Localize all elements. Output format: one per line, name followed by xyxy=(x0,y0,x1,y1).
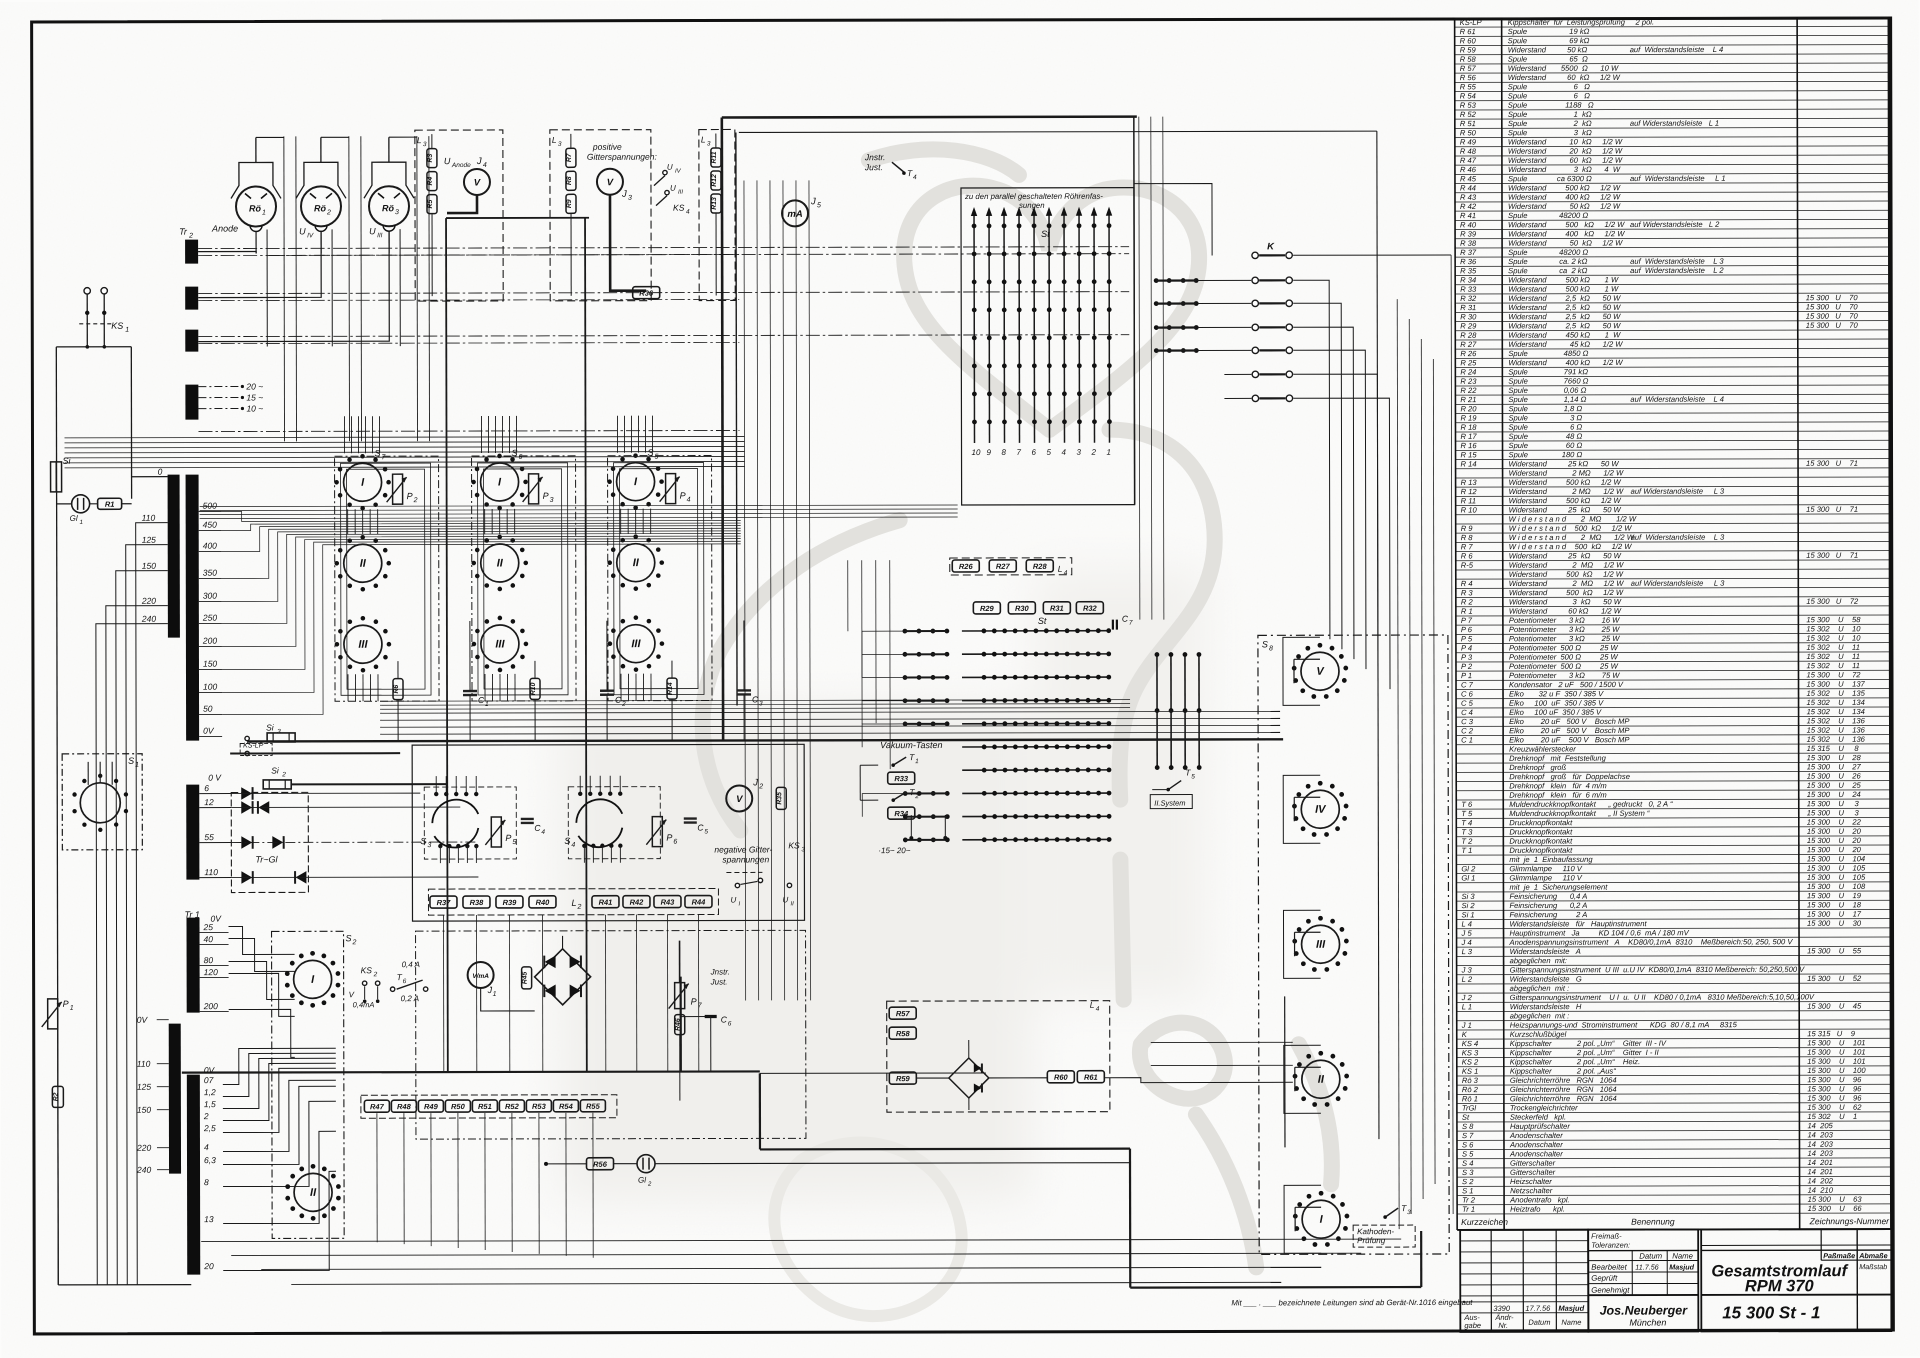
fuse Si2 xyxy=(263,780,291,789)
svg-text:Potentiometer 3 kΩ: Potentiometer 3 kΩ 25 W xyxy=(1509,625,1620,634)
resistor R34 xyxy=(888,807,915,819)
svg-text:Si 2: Si 2 xyxy=(1461,901,1475,910)
wire bottom xyxy=(58,1284,191,1286)
svg-text:R 57: R 57 xyxy=(1460,64,1477,73)
svg-text:1: 1 xyxy=(80,520,83,526)
svg-text:Spule 69 kΩ: Spule 69 kΩ xyxy=(1508,36,1590,45)
resistor R27 xyxy=(989,560,1016,572)
svg-text:15 300 U 72: 15 300 U 72 xyxy=(1806,670,1861,679)
wire bundle band B xyxy=(380,700,1130,702)
resistor R40 xyxy=(529,896,556,908)
svg-text:1: 1 xyxy=(915,758,919,765)
svg-text:15 300 U 101: 15 300 U 101 xyxy=(1807,1048,1865,1057)
svg-text:R 44: R 44 xyxy=(1460,184,1476,193)
svg-text:T 2: T 2 xyxy=(1461,837,1473,846)
svg-text:15 300 U 63: 15 300 U 63 xyxy=(1808,1195,1863,1204)
svg-text:Kreuzwählerstecker: Kreuzwählerstecker xyxy=(1509,745,1576,754)
svg-text:R39: R39 xyxy=(503,898,518,907)
svg-text:Spule ca. 2 kΩ: Spule ca. 2 kΩ xyxy=(1508,257,1587,266)
svg-text:R51: R51 xyxy=(478,1102,492,1111)
svg-text:R 37: R 37 xyxy=(1460,248,1477,257)
svg-text:KS-LP: KS-LP xyxy=(1460,18,1483,27)
svg-text:Spule 1,8 Ω: Spule 1,8 Ω xyxy=(1508,404,1582,413)
svg-text:abgeglichen mit :: abgeglichen mit : xyxy=(1510,1011,1570,1020)
svg-text:Drehknopf mit Feststellung: Drehknopf mit Feststellung xyxy=(1509,754,1606,763)
svg-text:R 24: R 24 xyxy=(1460,368,1476,377)
svg-text:R 55: R 55 xyxy=(1460,82,1477,91)
svg-text:200: 200 xyxy=(202,636,217,646)
svg-text:Spule 6: Spule 6 Ω xyxy=(1508,91,1590,100)
selector S4 xyxy=(576,799,622,823)
svg-text:U: U xyxy=(730,895,736,904)
svg-text:Gitterspannungen:: Gitterspannungen: xyxy=(587,152,658,162)
svg-text:5: 5 xyxy=(1191,774,1195,781)
wire anode staircase xyxy=(222,510,741,521)
svg-text:5: 5 xyxy=(817,202,821,209)
svg-text:Widerstand 3 kΩ: Widerstand 3 kΩ 4 W xyxy=(1508,165,1621,174)
svg-text:Tr 1: Tr 1 xyxy=(1462,1205,1475,1214)
svg-text:R 23: R 23 xyxy=(1460,377,1477,386)
svg-text:Bearbeitet: Bearbeitet xyxy=(1591,1263,1627,1272)
selector switch V xyxy=(1301,652,1339,690)
svg-text:Datum: Datum xyxy=(1639,1252,1662,1261)
svg-text:R 59: R 59 xyxy=(1460,46,1477,55)
svg-text:U: U xyxy=(369,226,376,236)
svg-text:R 19: R 19 xyxy=(1460,414,1477,423)
svg-text:Widerstand 500 kΩ: Widerstand 500 kΩ 1/2 W xyxy=(1508,220,1625,229)
jumper contact row xyxy=(1154,278,1159,283)
svg-text:2: 2 xyxy=(576,904,581,911)
resistor R11 xyxy=(711,148,721,167)
glow lamp Gl1 xyxy=(72,495,90,513)
svg-text:V: V xyxy=(607,177,614,188)
svg-text:3: 3 xyxy=(277,728,281,735)
resistor R57 xyxy=(889,1007,916,1019)
svg-text:P 3: P 3 xyxy=(1461,653,1473,662)
svg-text:R-5: R-5 xyxy=(1461,561,1474,570)
svg-text:R58: R58 xyxy=(896,1029,911,1038)
svg-text:150: 150 xyxy=(142,561,156,571)
svg-text:III: III xyxy=(1316,939,1326,951)
svg-text:Jos.Neuberger: Jos.Neuberger xyxy=(1600,1303,1689,1317)
jumper contact row xyxy=(1224,373,1251,375)
svg-text:15 300 U 96: 15 300 U 96 xyxy=(1807,1084,1862,1093)
svg-text:S 5: S 5 xyxy=(1462,1150,1474,1159)
svg-text:110: 110 xyxy=(142,513,156,523)
tube Rö1 xyxy=(236,186,276,226)
svg-text:Si: Si xyxy=(266,722,275,732)
svg-text:Elko 100 uF 350 / 385 V: Elko 100 uF 350 / 385 V xyxy=(1509,708,1602,717)
svg-text:15 300 U 101: 15 300 U 101 xyxy=(1807,1038,1865,1047)
svg-text:Spule 65 Ω: Spule 65 Ω xyxy=(1508,54,1588,63)
svg-text:15 300 U 70: 15 300 U 70 xyxy=(1806,321,1859,330)
svg-text:15 ~: 15 ~ xyxy=(246,392,263,402)
svg-text:W i d e r s t a n d 500 kΩ: W i d e r s t a n d 500 kΩ 1/2 W xyxy=(1509,524,1633,533)
svg-text:15 300 U 19: 15 300 U 19 xyxy=(1807,891,1862,900)
svg-text:C: C xyxy=(697,823,704,833)
wire feeders to contact clusters xyxy=(847,560,849,631)
svg-text:6: 6 xyxy=(403,978,407,985)
svg-text:III: III xyxy=(377,232,383,239)
resistor row R47-R55 xyxy=(361,1095,617,1119)
svg-text:J 4: J 4 xyxy=(1461,938,1472,947)
svg-text:R53: R53 xyxy=(532,1102,547,1111)
fuse Si3 xyxy=(267,733,295,742)
svg-text:R 39: R 39 xyxy=(1460,230,1477,239)
svg-text:Netzschalter: Netzschalter xyxy=(1510,1186,1553,1195)
svg-text:Widerstand 500 kΩ: Widerstand 500 kΩ 1/2 W xyxy=(1509,570,1624,579)
svg-text:R40: R40 xyxy=(536,898,551,907)
svg-text:0,4mA: 0,4mA xyxy=(353,1000,375,1009)
resistor row R37-R44 (L2) xyxy=(428,889,718,916)
svg-text:Kippschalter 2 pol.: Kippschalter 2 pol. „Um“ Heiz. xyxy=(1510,1057,1640,1066)
svg-text:U: U xyxy=(299,226,306,236)
svg-text:400: 400 xyxy=(203,541,217,551)
svg-text:2: 2 xyxy=(281,771,286,778)
resistor R9 xyxy=(566,194,576,213)
svg-text:Glimmlampe 110 V: Glimmlampe 110 V xyxy=(1509,873,1582,882)
svg-text:Gl: Gl xyxy=(70,514,78,523)
svg-text:R 41: R 41 xyxy=(1460,211,1476,220)
svg-text:2: 2 xyxy=(914,793,919,800)
svg-text:P: P xyxy=(63,999,69,1009)
svg-text:S 4: S 4 xyxy=(1462,1159,1473,1168)
resistor R39 xyxy=(496,896,523,908)
svg-text:II: II xyxy=(790,901,794,907)
svg-text:15 300 U 18: 15 300 U 18 xyxy=(1807,900,1862,909)
svg-text:Drehknopf groß für Doppel: Drehknopf groß für Doppelachse xyxy=(1509,772,1630,781)
wire vertical feeders xyxy=(283,136,286,441)
svg-text:R50: R50 xyxy=(451,1102,466,1111)
svg-text:Maßstab: Maßstab xyxy=(1859,1262,1887,1271)
svg-text:L 4: L 4 xyxy=(1462,920,1472,929)
svg-text:Kippschalter 2 pol.: Kippschalter 2 pol. „Aus“ xyxy=(1510,1066,1616,1075)
resistor R36 xyxy=(633,287,660,299)
resistor R31 xyxy=(1043,602,1070,614)
svg-text:S 6: S 6 xyxy=(1462,1140,1474,1149)
resistor R59 xyxy=(889,1072,916,1084)
svg-text:Potentiometer 500 Ω 2: Potentiometer 500 Ω 25 W xyxy=(1509,662,1619,671)
svg-text:3: 3 xyxy=(707,141,711,148)
rail 0V (Si3/KS-LP) xyxy=(247,739,1283,741)
svg-text:500: 500 xyxy=(203,501,217,511)
svg-text:J 1: J 1 xyxy=(1461,1021,1472,1030)
svg-text:Widerstand 500 kΩ: Widerstand 500 kΩ 1/2 W xyxy=(1509,588,1624,597)
svg-text:3390: 3390 xyxy=(1493,1304,1511,1313)
svg-text:Anodenschalter: Anodenschalter xyxy=(1509,1131,1563,1140)
svg-text:S: S xyxy=(346,933,352,943)
resistor R28 xyxy=(1026,560,1053,572)
selector switch I xyxy=(617,463,655,501)
svg-text:C: C xyxy=(534,823,541,833)
selector switch III xyxy=(1302,925,1340,963)
svg-text:5: 5 xyxy=(1047,448,1052,457)
wire vertical feeders far right xyxy=(1397,299,1399,1229)
svg-text:L: L xyxy=(701,135,706,145)
svg-text:2: 2 xyxy=(352,939,357,946)
svg-text:14 205: 14 205 xyxy=(1807,1121,1833,1130)
svg-text:40: 40 xyxy=(204,934,214,944)
wire drops from L2 row xyxy=(442,915,444,1072)
svg-text:R1: R1 xyxy=(105,500,115,509)
resistor R10 xyxy=(530,678,540,699)
svg-text:Widerstand 25 kΩ: Widerstand 25 kΩ 50 W xyxy=(1509,505,1622,514)
resistor R38 xyxy=(463,896,490,908)
svg-text:Anodenspannungsinstrument A: Anodenspannungsinstrument A KD80/0,1mA 8… xyxy=(1509,937,1794,947)
svg-text:Gitterschalter: Gitterschalter xyxy=(1510,1168,1556,1177)
svg-text:15 302 U 134: 15 302 U 134 xyxy=(1807,698,1865,707)
svg-text:15 300 U 105: 15 300 U 105 xyxy=(1807,873,1866,882)
svg-text:R60: R60 xyxy=(1054,1073,1069,1082)
svg-text:15 300 U 100: 15 300 U 100 xyxy=(1807,1066,1866,1075)
svg-text:Widerstand 2 MΩ: Widerstand 2 MΩ 1/2 W xyxy=(1509,487,1624,496)
svg-text:R 47: R 47 xyxy=(1460,156,1477,165)
svg-text:Spule 48 Ω: Spule 48 Ω xyxy=(1508,432,1582,441)
svg-text:15 302 U 1: 15 302 U 1 xyxy=(1807,1112,1857,1121)
resistor R8 xyxy=(566,171,576,190)
resistor R46 xyxy=(675,1015,685,1035)
svg-text:15 300 U 3: 15 300 U 3 xyxy=(1807,799,1860,808)
jumper contact row xyxy=(1154,301,1159,306)
svg-text:14 202: 14 202 xyxy=(1808,1176,1834,1185)
resistor R7 xyxy=(566,148,576,167)
svg-text:R 9: R 9 xyxy=(1461,524,1474,533)
resistor R56 xyxy=(587,1158,614,1170)
svg-text:P 6: P 6 xyxy=(1461,625,1473,634)
transformer Tr2 primary xyxy=(168,475,180,638)
potentiometer P6 xyxy=(652,817,662,847)
svg-text:R28: R28 xyxy=(1033,562,1048,571)
svg-text:R37: R37 xyxy=(437,898,452,907)
jumper contact row xyxy=(1154,325,1159,330)
svg-text:4: 4 xyxy=(687,497,691,504)
svg-text:S 2: S 2 xyxy=(1462,1177,1474,1186)
svg-text:0V: 0V xyxy=(137,1015,149,1025)
svg-text:III: III xyxy=(358,639,368,651)
svg-text:L 1: L 1 xyxy=(1462,1002,1472,1011)
svg-text:4: 4 xyxy=(1096,1006,1100,1013)
svg-text:R8: R8 xyxy=(566,176,573,185)
svg-text:5: 5 xyxy=(704,829,708,836)
svg-text:R6: R6 xyxy=(393,685,400,694)
svg-text:15 300 U 27: 15 300 U 27 xyxy=(1807,762,1862,771)
svg-text:R36: R36 xyxy=(639,289,654,298)
svg-text:8: 8 xyxy=(1002,448,1007,457)
svg-text:R10: R10 xyxy=(530,682,537,695)
svg-text:Spule 4850 Ω: Spule 4850 Ω xyxy=(1508,349,1588,358)
selector switch II xyxy=(1302,1060,1340,1098)
svg-text:R61: R61 xyxy=(1084,1073,1098,1082)
svg-text:Spule 1: Spule 1 kΩ xyxy=(1508,110,1592,119)
svg-text:2: 2 xyxy=(326,209,331,216)
svg-text:auf Widerstandsleiste L 3: auf Widerstandsleiste L 3 xyxy=(1630,257,1724,266)
meter J2 xyxy=(726,785,752,811)
resistor R6 xyxy=(393,679,403,700)
svg-text:Tr~Gl: Tr~Gl xyxy=(255,854,278,864)
svg-text:2,5: 2,5 xyxy=(203,1123,216,1133)
svg-text:J: J xyxy=(752,777,758,788)
svg-text:14 203: 14 203 xyxy=(1807,1149,1833,1158)
svg-text:2: 2 xyxy=(1091,448,1097,457)
svg-text:Widerstand 2 MΩ: Widerstand 2 MΩ 1/2 W xyxy=(1509,468,1624,477)
svg-text:15 300 U 71: 15 300 U 71 xyxy=(1806,551,1858,560)
svg-text:R 21: R 21 xyxy=(1460,395,1476,404)
svg-text:1: 1 xyxy=(485,701,489,708)
svg-text:Widerstand 5500 Ω: Widerstand 5500 Ω 10 W xyxy=(1508,64,1619,73)
rail 0V heater xyxy=(182,1071,760,1072)
svg-text:Widerstand 2 MΩ: Widerstand 2 MΩ 1/2 W xyxy=(1509,560,1624,569)
svg-text:II.System: II.System xyxy=(1154,799,1185,808)
wire bundle band C xyxy=(64,436,744,437)
selector S3 xyxy=(432,800,478,824)
svg-text:220: 220 xyxy=(136,1143,151,1153)
svg-text:Widerstand 2,5 kΩ: Widerstand 2,5 kΩ 50 W xyxy=(1508,303,1621,312)
selector S6 group xyxy=(472,456,577,701)
svg-text:15 300 U 70: 15 300 U 70 xyxy=(1806,312,1859,321)
svg-text:R56: R56 xyxy=(593,1160,608,1169)
svg-text:6,3: 6,3 xyxy=(204,1155,216,1165)
resistor R49 xyxy=(418,1100,443,1112)
resistor R1 xyxy=(98,498,122,509)
svg-text:Heizspannungs-und Strominstru: Heizspannungs-und Strominstrument KDG 80… xyxy=(1510,1020,1738,1029)
svg-text:15 300 U 22: 15 300 U 22 xyxy=(1807,818,1862,827)
svg-text:Just.: Just. xyxy=(864,162,883,172)
svg-text:2: 2 xyxy=(758,783,763,790)
svg-text:20: 20 xyxy=(203,1261,214,1271)
resistor R4 xyxy=(427,172,437,191)
svg-text:R 50: R 50 xyxy=(1460,128,1477,137)
svg-text:2: 2 xyxy=(413,497,418,504)
svg-text:15 300 U 45: 15 300 U 45 xyxy=(1807,1002,1862,1011)
svg-text:IV: IV xyxy=(307,232,314,239)
svg-text:7: 7 xyxy=(1129,620,1133,627)
capacitor C3 xyxy=(737,689,751,691)
svg-text:U: U xyxy=(782,895,788,904)
svg-text:10: 10 xyxy=(972,448,981,457)
svg-text:R 14: R 14 xyxy=(1461,460,1477,469)
svg-text:7: 7 xyxy=(1017,448,1022,457)
resistor R26 xyxy=(952,560,979,572)
svg-text:V: V xyxy=(474,178,481,189)
svg-text:15 300 U 3: 15 300 U 3 xyxy=(1807,808,1860,817)
svg-text:zu den parallel geschalteten R: zu den parallel geschalteten Röhrenfas- xyxy=(964,192,1103,201)
capacitor C2 xyxy=(600,690,614,692)
svg-text:Tr 2: Tr 2 xyxy=(1462,1196,1476,1205)
node taps 20 15 10 xyxy=(198,386,241,388)
svg-text:240: 240 xyxy=(141,614,156,624)
svg-text:6: 6 xyxy=(673,839,677,846)
selector switch I xyxy=(481,463,519,501)
svg-text:13: 13 xyxy=(204,1214,214,1224)
svg-text:L: L xyxy=(571,898,576,908)
switch KS2 xyxy=(362,981,366,985)
svg-text:Rö: Rö xyxy=(314,203,327,213)
svg-text:3: 3 xyxy=(1077,448,1082,457)
wire R61 to selector II xyxy=(1105,1077,1293,1082)
svg-text:1: 1 xyxy=(135,762,139,769)
svg-text:R4: R4 xyxy=(427,177,434,186)
svg-text:R43: R43 xyxy=(661,898,676,907)
svg-text:R 53: R 53 xyxy=(1460,101,1477,110)
svg-text:125: 125 xyxy=(142,535,156,545)
svg-text:15 300 U 137: 15 300 U 137 xyxy=(1807,680,1866,689)
svg-text:1,5: 1,5 xyxy=(204,1099,216,1109)
wire drops from R47-R55 xyxy=(376,1113,378,1242)
svg-text:15 302 U 11: 15 302 U 11 xyxy=(1806,652,1860,661)
svg-text:15 300 U 17: 15 300 U 17 xyxy=(1807,910,1862,919)
svg-text:15 300 U 30: 15 300 U 30 xyxy=(1807,919,1862,928)
svg-text:0 V: 0 V xyxy=(208,773,222,783)
glow lamp Gl2 xyxy=(637,1155,655,1173)
svg-text:5: 5 xyxy=(512,839,516,846)
svg-text:sungen: sungen xyxy=(1019,201,1045,210)
svg-text:Gl 1: Gl 1 xyxy=(1461,874,1475,883)
svg-text:125: 125 xyxy=(137,1082,151,1092)
selector switch I (S2) xyxy=(294,960,332,998)
svg-text:R 32: R 32 xyxy=(1460,294,1477,303)
svg-text:St: St xyxy=(1038,616,1047,626)
svg-text:C 6: C 6 xyxy=(1461,690,1474,699)
svg-text:10 ~: 10 ~ xyxy=(246,403,263,413)
svg-text:8: 8 xyxy=(204,1177,209,1187)
selector switch III xyxy=(344,625,382,663)
svg-text:J 5: J 5 xyxy=(1461,929,1473,938)
svg-text:II: II xyxy=(633,557,640,569)
svg-text:KS: KS xyxy=(673,203,685,213)
svg-text:15 300 U 25: 15 300 U 25 xyxy=(1807,781,1862,790)
svg-text:Widerstandsleiste für Haup: Widerstandsleiste für Hauptinstrument xyxy=(1510,919,1648,928)
selector switch II xyxy=(481,544,519,582)
svg-text:15 302 U 11: 15 302 U 11 xyxy=(1806,661,1860,670)
resistor R58 xyxy=(889,1027,916,1039)
svg-text:Spule 2: Spule 2 kΩ xyxy=(1508,119,1592,128)
switch T3 (Kathoden-Pruefung) xyxy=(1385,1208,1398,1217)
svg-text:R 12: R 12 xyxy=(1461,487,1478,496)
svg-text:R 60: R 60 xyxy=(1460,36,1477,45)
capacitor C4 xyxy=(521,818,534,820)
svg-text:U: U xyxy=(444,156,451,166)
svg-text:15 302 U 135: 15 302 U 135 xyxy=(1807,689,1866,698)
svg-text:Spule 1,14 Ω: Spule 1,14 Ω xyxy=(1508,395,1586,404)
svg-text:300: 300 xyxy=(203,591,217,601)
svg-text:V: V xyxy=(736,794,743,805)
svg-text:3: 3 xyxy=(759,700,763,707)
svg-text:R 35: R 35 xyxy=(1460,266,1477,275)
selector switch III xyxy=(481,625,519,663)
svg-text:Spule 19 kΩ: Spule 19 kΩ xyxy=(1508,27,1590,36)
svg-text:Druckknopfkontakt: Druckknopfkontakt xyxy=(1509,827,1573,836)
svg-text:Benennung: Benennung xyxy=(1631,1217,1675,1227)
svg-text:Widerstand 2,5 kΩ: Widerstand 2,5 kΩ 50 W xyxy=(1508,294,1621,303)
box negative grid xyxy=(412,744,804,921)
svg-text:Freimaß-: Freimaß- xyxy=(1591,1232,1622,1241)
svg-text:4: 4 xyxy=(483,162,487,169)
svg-text:W i d e r s t a n d 500 kΩ: W i d e r s t a n d 500 kΩ 1/2 W xyxy=(1509,542,1633,551)
svg-text:15 300 U 105: 15 300 U 105 xyxy=(1807,864,1866,873)
svg-text:C: C xyxy=(478,695,485,705)
svg-text:50: 50 xyxy=(203,704,213,714)
resistor R3 xyxy=(427,149,437,168)
svg-text:14 210: 14 210 xyxy=(1808,1186,1834,1195)
svg-text:auf Widerstandsleiste L 4: auf Widerstandsleiste L 4 xyxy=(1630,395,1724,404)
resistor R13 xyxy=(711,194,721,213)
svg-text:0,4 A: 0,4 A xyxy=(402,960,420,969)
svg-text:Anode: Anode xyxy=(451,162,471,169)
svg-text:15 300 U 108: 15 300 U 108 xyxy=(1807,882,1866,891)
svg-text:17.7.56: 17.7.56 xyxy=(1525,1304,1551,1313)
svg-text:C 3: C 3 xyxy=(1461,717,1474,726)
switch KS1 xyxy=(84,288,90,294)
